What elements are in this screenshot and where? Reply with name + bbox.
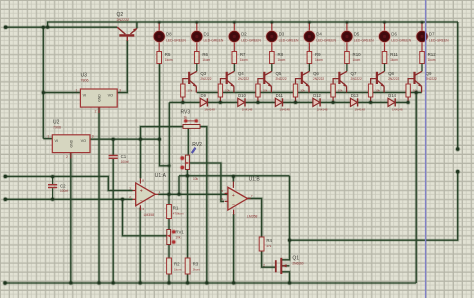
wire U3 VI feed: [43, 91, 80, 94]
wire collector Q7: [346, 64, 348, 72]
wire Q2 emitter to supply rail: [135, 22, 138, 28]
svg-text:LED-GREEN: LED-GREEN: [391, 38, 411, 42]
wire C1 top lead: [112, 139, 115, 155]
junction emitter rail drop: [414, 90, 419, 95]
wire branch to RV1 wiper: [123, 199, 167, 236]
base resistor stage 6: [333, 79, 339, 84]
junction ladder tap stage 4: [256, 100, 261, 105]
svg-text:VI: VI: [83, 93, 87, 97]
svg-text:−: −: [140, 198, 143, 204]
svg-text:2N2222: 2N2222: [238, 77, 249, 81]
svg-text:D8: D8: [166, 32, 172, 37]
LED D5: [346, 22, 348, 32]
svg-text:1kom: 1kom: [390, 58, 398, 62]
base resistor stage 3: [220, 79, 226, 84]
svg-text:C2: C2: [60, 183, 66, 188]
svg-text:1kom: 1kom: [353, 58, 361, 62]
transistor Q5: [264, 71, 272, 92]
diode D12: [313, 98, 320, 106]
wire opamp B V+ stub to node: [232, 176, 235, 181]
svg-text:R9: R9: [315, 52, 321, 57]
op-amp U1:A: [136, 183, 156, 206]
junction LED rail stage 4: [270, 20, 274, 24]
svg-text:VO: VO: [81, 139, 87, 143]
resistor R12: [420, 52, 425, 64]
svg-text:D11: D11: [276, 93, 284, 98]
svg-text:1kom: 1kom: [202, 58, 210, 62]
svg-text:D6: D6: [391, 32, 397, 37]
svg-text:10k: 10k: [175, 235, 181, 239]
wire RV3 right lead down to ground rail: [200, 127, 207, 283]
resistor R3: [185, 258, 190, 274]
svg-text:D10: D10: [238, 93, 246, 98]
svg-text:U1:A: U1:A: [155, 173, 167, 179]
wire right edge lower segment to drain net: [290, 172, 458, 241]
svg-text:1N4148: 1N4148: [279, 107, 290, 111]
base resistor stage 8: [408, 79, 414, 84]
transistor Q4: [227, 71, 235, 92]
wire RV2 bottom lead: [186, 170, 189, 176]
svg-text:1kom: 1kom: [240, 58, 248, 62]
wire R1 top lead: [167, 194, 170, 204]
terminal dot input top-left: [3, 25, 8, 30]
svg-text:U3: U3: [81, 72, 88, 78]
svg-text:+: +: [140, 189, 143, 195]
potentiometer RV2: [185, 155, 189, 169]
svg-text:D14: D14: [388, 93, 396, 98]
resistor R4: [259, 237, 264, 251]
svg-text:3: 3: [119, 89, 121, 93]
LED D2: [233, 22, 235, 32]
base resistor stage 4: [258, 79, 264, 84]
resistor R7: [232, 52, 237, 64]
svg-text:1kom: 1kom: [428, 58, 436, 62]
svg-text:2N2222: 2N2222: [117, 18, 130, 22]
svg-text:LED-GREEN: LED-GREEN: [204, 38, 224, 42]
junction jog x169: [167, 164, 171, 168]
svg-text:1N4148: 1N4148: [242, 107, 253, 111]
svg-text:10k: 10k: [338, 89, 343, 93]
transistor Q6: [302, 71, 310, 92]
potentiometer RV3: [183, 125, 200, 129]
svg-text:2: 2: [66, 155, 68, 159]
wire RV3 left lead to x140 vertical: [141, 127, 184, 179]
svg-text:10k: 10k: [188, 89, 193, 93]
wire x169 vertical diode rail to output node: [168, 102, 171, 194]
junction ground rail C1: [111, 281, 116, 286]
svg-text:D9: D9: [201, 93, 207, 98]
svg-text:Q6: Q6: [313, 71, 319, 76]
wire step up to LED supply rail: [48, 22, 458, 27]
svg-text:R11: R11: [390, 52, 398, 57]
svg-text:D12: D12: [313, 93, 321, 98]
wire R3 to ground rail: [186, 274, 189, 283]
MOSFET Q1: [276, 258, 282, 274]
svg-text:2: 2: [263, 263, 265, 267]
diode D11: [275, 98, 282, 106]
svg-text:1N4148: 1N4148: [392, 107, 403, 111]
wire collector Q9: [421, 64, 423, 72]
diode D10: [238, 98, 245, 106]
svg-text:VI: VI: [55, 139, 59, 143]
terminal dot input low-left: [3, 197, 8, 202]
svg-text:C1: C1: [121, 154, 127, 159]
junction C2 bottom: [50, 197, 55, 202]
potentiometer RV1: [167, 230, 171, 245]
wire y175.8 drop to output net: [177, 176, 180, 195]
svg-text:2N2222: 2N2222: [426, 77, 437, 81]
svg-text:U2: U2: [53, 119, 60, 125]
resistor R11: [382, 52, 387, 64]
svg-text:R8: R8: [277, 52, 283, 57]
junction ground rail Q1 source: [287, 281, 292, 286]
svg-text:+: +: [232, 193, 235, 199]
base resistor stage 7: [371, 79, 377, 84]
svg-text:470kom: 470kom: [173, 212, 184, 216]
wire U2 GND down to ground rail: [69, 153, 72, 283]
wire Q1 drain up to y240 net: [281, 240, 289, 260]
junction ground rail U2 gnd: [68, 281, 73, 286]
svg-text:LED-GREEN: LED-GREEN: [316, 38, 336, 42]
svg-text:2kom: 2kom: [193, 267, 201, 271]
op-amp U1:B: [228, 187, 248, 210]
wire opamp B V- to ground rail: [232, 214, 235, 283]
wire RV3 wiper to RV2 top: [187, 128, 190, 155]
base resistor stage 2: [183, 79, 189, 84]
regulator U3 7806: [80, 89, 117, 107]
svg-text:10k: 10k: [225, 89, 230, 93]
svg-text:1N4148: 1N4148: [354, 107, 365, 111]
svg-text:100nf: 100nf: [60, 189, 68, 193]
wire RV2 bottom net down to R3: [186, 176, 189, 258]
svg-text:1kom: 1kom: [165, 58, 173, 62]
svg-text:Q5: Q5: [275, 71, 281, 76]
wire Q1 source to ground rail: [281, 272, 289, 283]
svg-text:1N4148: 1N4148: [204, 107, 215, 111]
wire opamp A output to opamp B +: [158, 193, 228, 196]
junction ladder tap stage 8: [406, 100, 411, 105]
transistor Q7: [339, 71, 347, 92]
regulator U2 7906: [52, 135, 90, 153]
svg-text:D2: D2: [241, 32, 247, 37]
wire top input rail y27: [6, 26, 118, 29]
diode D14: [388, 98, 395, 106]
svg-text:7906: 7906: [53, 126, 61, 130]
junction opamp B V+ node: [231, 174, 236, 179]
resistor R10: [345, 52, 350, 64]
wire collector Q6: [308, 64, 310, 72]
capacitor C2: [48, 184, 57, 186]
wire left vertical x43 to regulators: [42, 27, 45, 138]
svg-text:R12: R12: [428, 52, 437, 57]
svg-text:LED-GREEN: LED-GREEN: [166, 38, 186, 42]
svg-text:1kom: 1kom: [315, 58, 323, 62]
LED D4: [308, 22, 310, 32]
resistor R6: [194, 52, 199, 64]
svg-text:R3: R3: [193, 261, 199, 266]
svg-text:LED-GREEN: LED-GREEN: [241, 38, 261, 42]
junction C2 top: [50, 174, 55, 179]
wire R2 to ground rail: [167, 274, 170, 283]
junction ladder tap stage 7: [368, 100, 373, 105]
svg-text:LED-GREEN: LED-GREEN: [279, 38, 299, 42]
svg-text:10k: 10k: [375, 89, 380, 93]
wire C1 bottom lead to ground rail: [112, 158, 115, 283]
wire opamp A V- down to ground rail: [139, 208, 142, 284]
resistor R1: [167, 205, 172, 219]
svg-text:VO: VO: [108, 93, 114, 97]
svg-text:D13: D13: [351, 93, 359, 98]
junction ladder tap stage 2: [180, 100, 185, 105]
svg-text:U1:B: U1:B: [249, 176, 261, 182]
wire right edge drop to node: [456, 22, 459, 149]
resistor R8: [270, 52, 275, 64]
transistor Q8: [377, 71, 385, 92]
svg-text:100nf: 100nf: [121, 160, 129, 164]
wire input lower to opamp A -: [5, 198, 132, 201]
wire collector Q5: [271, 64, 273, 72]
wire ground rail bottom: [5, 281, 416, 284]
LED D6: [384, 22, 386, 32]
svg-text:Q8: Q8: [388, 71, 394, 76]
LED D8: [158, 22, 160, 32]
junction ground rail U3 gnd: [97, 281, 102, 286]
junction LED rail stage 1: [157, 20, 161, 24]
svg-text:2N2222: 2N2222: [200, 77, 211, 81]
wire U2 VO net y139: [90, 138, 160, 141]
svg-text:GND: GND: [97, 94, 101, 102]
svg-text:10k: 10k: [263, 89, 268, 93]
junction RV2 bottom node: [185, 173, 190, 178]
wire R4 to Q1 gate: [262, 251, 276, 267]
junction LED rail stage 7: [383, 20, 387, 24]
svg-text:1k: 1k: [184, 115, 188, 119]
junction output x179: [177, 192, 182, 197]
wire R5 column down x159 with jog: [160, 64, 170, 166]
junction ground rail R3: [185, 281, 190, 286]
svg-text:LM358: LM358: [144, 213, 154, 217]
wire collector Q8: [384, 64, 386, 72]
junction ladder tap stage 3: [218, 100, 223, 105]
LED D3: [271, 22, 273, 32]
junction x43 top rail: [41, 25, 46, 30]
junction inverting branch: [120, 197, 125, 202]
terminal dot right upper: [455, 147, 460, 152]
junction drain net corner: [287, 238, 292, 243]
svg-text:LED-GREEN: LED-GREEN: [354, 38, 374, 42]
resistor R5: [157, 52, 162, 64]
svg-text:2: 2: [95, 110, 97, 114]
wire opamp B output to R4: [248, 198, 262, 237]
svg-text:Q4: Q4: [238, 71, 244, 76]
junction ground rail R2: [167, 281, 172, 286]
junction x140 on VO net: [138, 137, 143, 142]
svg-text:RV1: RV1: [175, 229, 184, 234]
wire emitter rail drop x416 to ground rail: [415, 93, 418, 284]
junction ground rail RV3: [204, 281, 209, 286]
svg-text:2N2222: 2N2222: [351, 77, 362, 81]
svg-text:RV2: RV2: [192, 142, 202, 148]
resistor R9: [307, 52, 312, 64]
svg-text:2N2222: 2N2222: [388, 77, 399, 81]
sheet border blue line: [425, 0, 427, 298]
svg-text:2N2222: 2N2222: [275, 77, 286, 81]
svg-text:R5: R5: [165, 52, 171, 57]
svg-text:D4: D4: [316, 32, 322, 37]
svg-text:1: 1: [47, 135, 49, 139]
diode D9: [200, 98, 207, 106]
svg-text:LM358: LM358: [247, 215, 257, 219]
junction ladder tap stage 6: [331, 100, 336, 105]
svg-text:R10: R10: [353, 52, 362, 57]
svg-text:1: 1: [76, 89, 78, 93]
wire RV1 to R2: [167, 245, 170, 259]
junction ground rail opamp A V-: [138, 281, 143, 286]
wire node y175.8 horizontal: [179, 174, 290, 177]
LED D1: [196, 22, 198, 32]
svg-text:D1: D1: [204, 32, 210, 37]
svg-text:D7: D7: [429, 32, 435, 37]
wire x289 vertical node to drain net: [288, 176, 291, 240]
wire R1 to RV1: [167, 219, 170, 230]
wire U3 GND down to ground rail: [97, 107, 100, 283]
svg-text:R4: R4: [266, 238, 272, 243]
svg-text:10k: 10k: [193, 177, 199, 181]
wire input upper to opamp A +: [5, 176, 132, 190]
wire collector Q3: [196, 64, 198, 72]
svg-text:7806: 7806: [81, 79, 89, 83]
svg-text:Q9: Q9: [426, 71, 432, 76]
svg-text:R1: R1: [173, 205, 179, 210]
svg-text:Q3: Q3: [200, 71, 206, 76]
junction U3 VI tap: [41, 90, 46, 95]
junction x47 top rail: [45, 25, 50, 30]
junction LED rail stage 2: [195, 20, 199, 24]
transistor Q2: [117, 27, 137, 41]
LED D7: [421, 22, 423, 32]
svg-text:−: −: [232, 203, 235, 209]
terminal dot input mid-left: [3, 174, 8, 179]
svg-text:10k: 10k: [300, 89, 305, 93]
svg-text:1kom: 1kom: [174, 267, 182, 271]
capacitor C1: [109, 155, 118, 157]
wire emitter rail y92: [197, 91, 422, 94]
junction ground rail opamp B V-: [231, 281, 236, 286]
svg-text:D3: D3: [279, 32, 285, 37]
mouse cursor mark: [191, 147, 196, 153]
svg-text:GND: GND: [69, 139, 73, 147]
transistor Q9: [415, 71, 423, 92]
svg-text:2N6660: 2N6660: [292, 262, 303, 266]
junction ladder tap stage 5: [293, 100, 298, 105]
wire RV2 wiper to opamp B -: [189, 163, 224, 201]
terminal dot right lower: [455, 169, 460, 174]
junction LED rail stage 3: [232, 20, 236, 24]
svg-text:D5: D5: [354, 32, 360, 37]
svg-text:R7: R7: [240, 52, 246, 57]
transistor Q3: [189, 71, 197, 92]
diode D13: [350, 98, 357, 106]
wire diode ladder rail y102: [169, 101, 408, 104]
wire collector Q4: [233, 64, 235, 72]
svg-text:LED-GREEN: LED-GREEN: [429, 38, 449, 42]
svg-text:47k: 47k: [266, 244, 271, 248]
svg-text:R6: R6: [202, 52, 208, 57]
wire Q1 bulk tap: [281, 264, 289, 267]
wire U2 VI feed: [43, 137, 52, 140]
svg-text:2N2222: 2N2222: [313, 77, 324, 81]
junction LED rail stage 8: [420, 20, 424, 24]
svg-text:R2: R2: [174, 261, 180, 266]
svg-text:1kom: 1kom: [277, 58, 285, 62]
svg-text:3: 3: [92, 135, 94, 139]
base resistor stage 5: [296, 79, 302, 84]
junction x159 on VO net: [157, 137, 162, 142]
svg-text:1N4148: 1N4148: [317, 107, 328, 111]
terminal dot ground rail left: [2, 280, 7, 285]
junction C1 tap: [111, 137, 116, 142]
junction LED rail stage 6: [345, 20, 349, 24]
junction output R1: [167, 192, 172, 197]
wire Q2 base to U3 VO: [117, 40, 127, 93]
resistor R2: [167, 258, 172, 274]
junction LED rail stage 5: [307, 20, 311, 24]
svg-text:Q7: Q7: [351, 71, 357, 76]
